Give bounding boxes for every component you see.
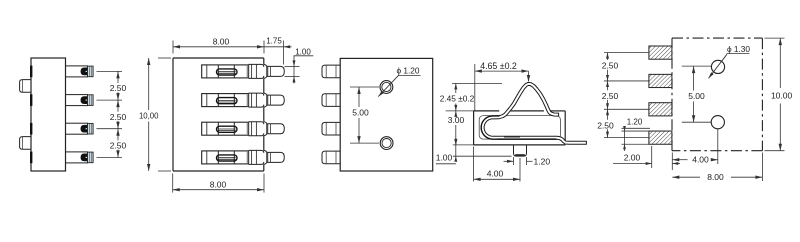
svg-text:4.00: 4.00 (487, 169, 504, 179)
svg-text:ϕ 1.30: ϕ 1.30 (727, 44, 750, 54)
svg-text:4.65 ±0.2: 4.65 ±0.2 (480, 61, 517, 71)
svg-text:2.50: 2.50 (602, 61, 619, 71)
svg-text:ϕ 1.20: ϕ 1.20 (396, 66, 419, 76)
svg-text:2.50: 2.50 (110, 141, 127, 151)
svg-text:5.00: 5.00 (352, 108, 369, 118)
svg-text:1.00: 1.00 (436, 153, 453, 163)
svg-text:10,00: 10,00 (139, 111, 159, 120)
svg-text:8.00: 8.00 (213, 36, 230, 46)
svg-text:1.75: 1.75 (266, 36, 282, 45)
svg-text:8.00: 8.00 (707, 172, 724, 182)
svg-text:2.00: 2.00 (624, 153, 641, 163)
svg-text:3.00: 3.00 (448, 115, 465, 125)
svg-text:2.50: 2.50 (597, 120, 614, 130)
svg-text:4.00: 4.00 (692, 155, 709, 165)
svg-text:2.45 ±0.2: 2.45 ±0.2 (440, 93, 475, 103)
svg-text:2.50: 2.50 (110, 112, 127, 122)
svg-text:5.00: 5.00 (688, 91, 705, 101)
svg-text:8.00: 8.00 (210, 179, 227, 189)
svg-text:2.50: 2.50 (110, 83, 127, 93)
svg-text:1.20: 1.20 (627, 117, 643, 126)
svg-text:2.50: 2.50 (602, 91, 619, 101)
svg-text:1.20: 1.20 (534, 156, 551, 166)
svg-text:10.00: 10.00 (771, 91, 793, 101)
svg-text:1.00: 1.00 (295, 47, 311, 56)
